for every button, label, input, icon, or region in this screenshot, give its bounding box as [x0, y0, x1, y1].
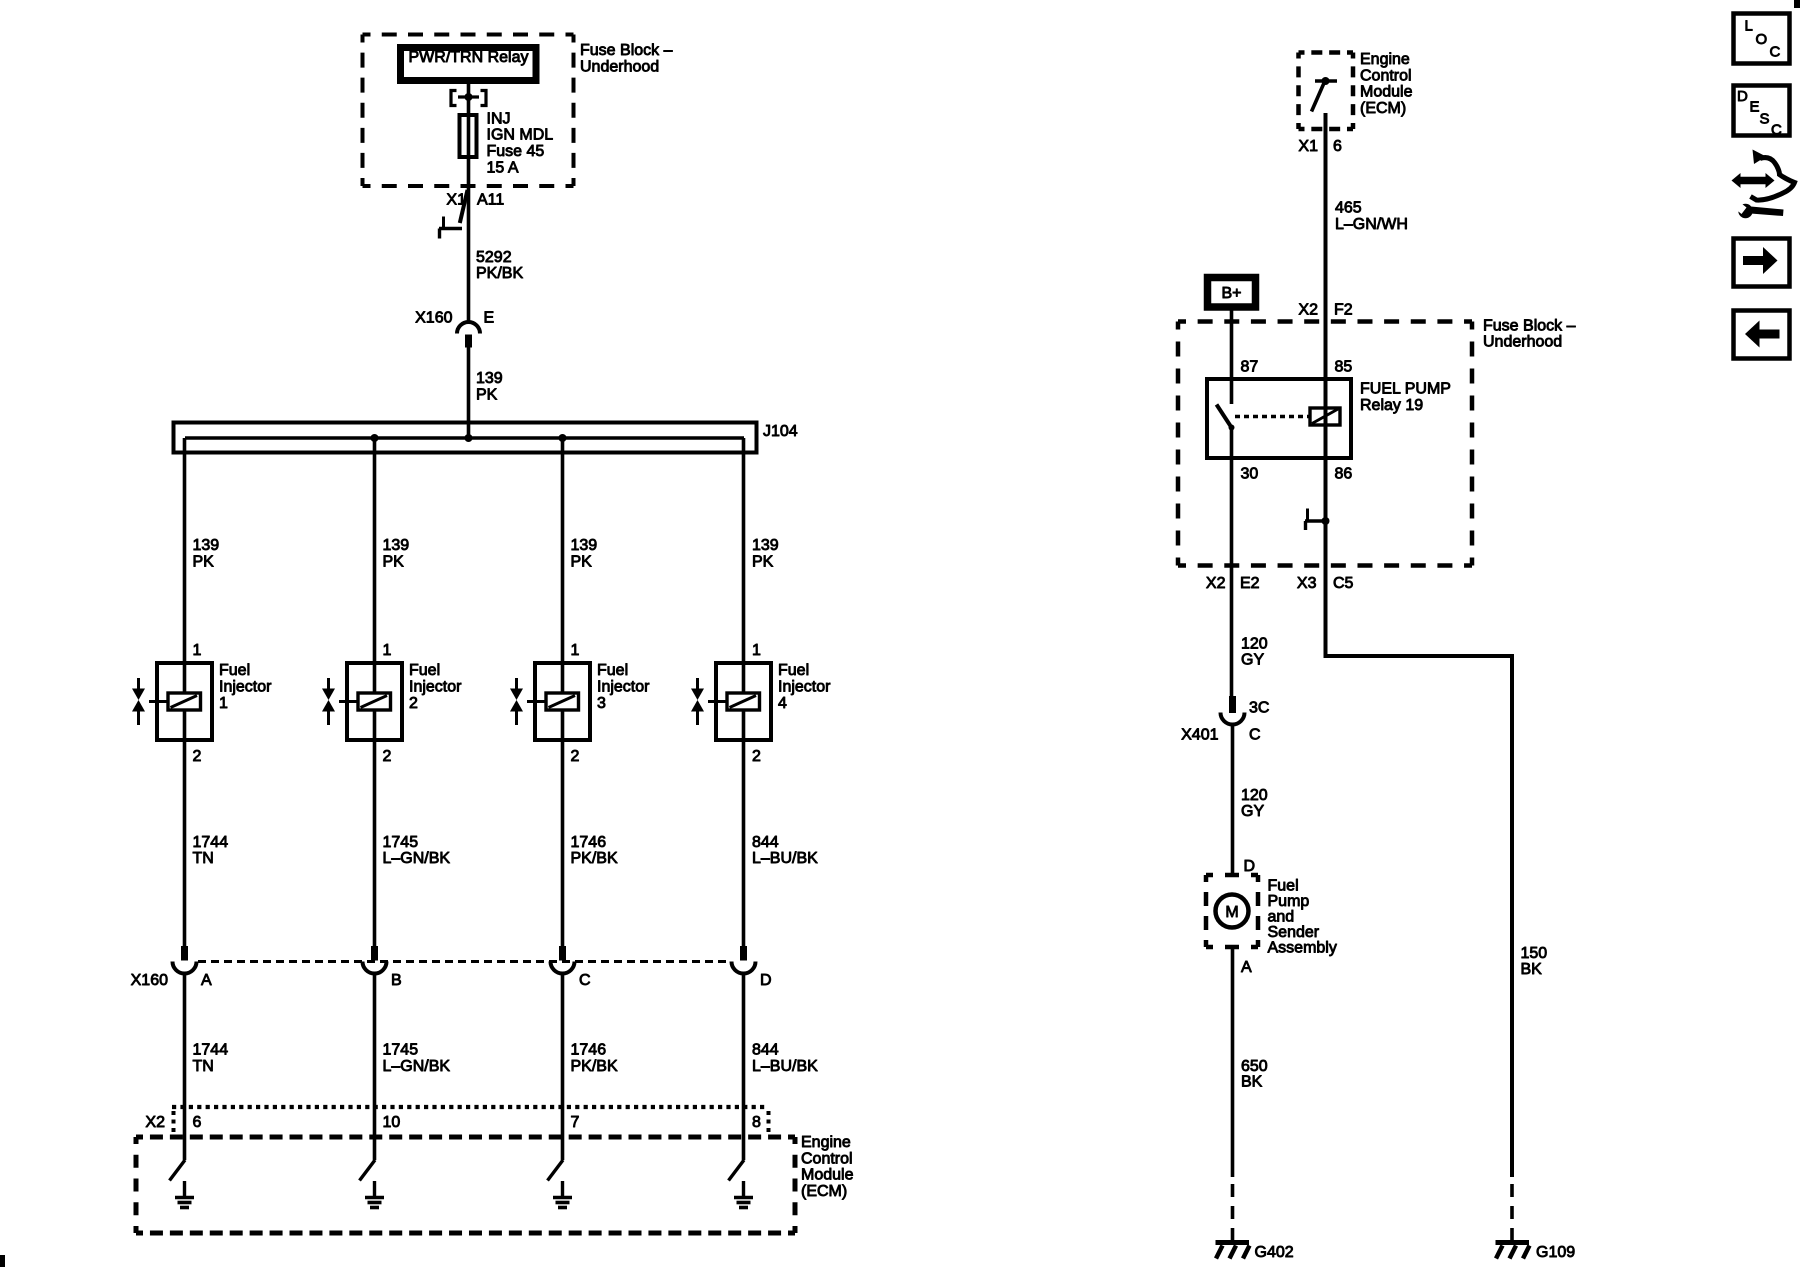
wire: relay output to fuse (net 5292 upper) — [467, 84, 471, 192]
svg-text:G109: G109 — [1536, 1244, 1575, 1261]
fuel injector 2 — [339, 662, 462, 740]
svg-text:Module: Module — [801, 1167, 854, 1184]
splice pack J104 — [174, 423, 798, 453]
wire B+ to relay pin 87 — [1230, 311, 1234, 405]
svg-text:6: 6 — [1333, 138, 1342, 155]
ECM fuel pump driver switch — [1312, 77, 1338, 112]
relay socket terminal clips — [451, 91, 486, 106]
svg-text:Underhood: Underhood — [580, 59, 659, 76]
svg-text:PK: PK — [476, 387, 498, 404]
svg-text:S: S — [1760, 111, 1770, 128]
svg-text:PWR/TRN Relay: PWR/TRN Relay — [408, 49, 528, 66]
wire 1744 TN lower — [185, 974, 229, 1161]
svg-text:30: 30 — [1241, 466, 1259, 483]
svg-text:Pump: Pump — [1268, 893, 1310, 910]
svg-text:Injector: Injector — [597, 679, 650, 696]
wire 844 L-BU/BK lower — [744, 974, 819, 1161]
svg-text:GY: GY — [1241, 803, 1264, 820]
svg-text:X2: X2 — [1298, 302, 1318, 319]
svg-text:FUEL PUMP: FUEL PUMP — [1360, 381, 1451, 398]
svg-text:15 A: 15 A — [487, 160, 519, 177]
svg-text:Injector: Injector — [409, 679, 462, 696]
svg-text:Fuel: Fuel — [1268, 878, 1299, 895]
svg-text:Fuel: Fuel — [219, 662, 250, 679]
connector row X2 dotted line — [145, 1107, 768, 1132]
svg-text:10: 10 — [383, 1114, 401, 1131]
connector X160 pin D — [732, 946, 772, 989]
fuel injector 3 — [527, 662, 650, 740]
wire 1745 L-GN/BK lower — [375, 974, 451, 1161]
connector X160 pin C — [551, 946, 591, 989]
battery feed B+ — [1208, 278, 1256, 308]
wire 120 GY lower — [1233, 725, 1268, 876]
injector 4 valve symbol — [691, 678, 704, 725]
svg-text:D: D — [1737, 88, 1748, 105]
svg-text:B+: B+ — [1221, 285, 1241, 302]
connector X160 pin E — [415, 310, 494, 348]
svg-text:Underhood: Underhood — [1483, 334, 1562, 351]
svg-text:85: 85 — [1335, 359, 1353, 376]
ECM driver switch 3 — [548, 1160, 564, 1181]
terminal hook on wire 86 — [1305, 509, 1330, 531]
pin labels X2 F2 — [1298, 302, 1352, 319]
svg-text:Fuse Block –: Fuse Block – — [1483, 318, 1576, 335]
pin labels X1 6 — [1298, 138, 1342, 155]
svg-text:D: D — [760, 972, 772, 989]
wire 1744 TN upper — [185, 710, 229, 946]
fuel injector 1 — [149, 662, 272, 740]
junction dot J104 left — [371, 434, 379, 442]
svg-text:86: 86 — [1335, 466, 1353, 483]
svg-text:2: 2 — [571, 748, 580, 765]
svg-text:Module: Module — [1360, 84, 1413, 101]
svg-text:IGN MDL: IGN MDL — [487, 127, 554, 144]
wire 1746 PK/BK upper — [563, 710, 618, 946]
svg-text:2: 2 — [752, 748, 761, 765]
svg-text:and: and — [1268, 909, 1295, 926]
ground G109 — [1496, 1243, 1576, 1262]
svg-text:X1: X1 — [1298, 138, 1318, 155]
wire 150 BK run to G109 — [1326, 654, 1548, 1177]
svg-text:(ECM): (ECM) — [801, 1183, 847, 1200]
pin labels 30 86 — [1241, 466, 1353, 483]
ground lead G402 dashed — [1231, 1184, 1235, 1240]
relay coil — [1310, 408, 1340, 425]
connector X1 pin A11 terminal — [439, 190, 504, 239]
svg-text:L: L — [1745, 18, 1753, 35]
pin labels X2 E2 — [1206, 575, 1260, 592]
svg-text:Control: Control — [1360, 67, 1412, 84]
ECM driver switch 2 — [360, 1160, 376, 1181]
svg-text:1: 1 — [752, 642, 761, 659]
svg-text:INJ: INJ — [487, 111, 511, 128]
svg-text:X160: X160 — [131, 972, 168, 989]
svg-text:465: 465 — [1335, 200, 1362, 217]
ground (ECM internal) 1 — [175, 1181, 194, 1208]
svg-text:C: C — [579, 972, 591, 989]
pin labels 87 85 — [1241, 359, 1353, 376]
svg-text:1: 1 — [571, 642, 580, 659]
svg-text:1745: 1745 — [383, 834, 419, 851]
icon next arrow button — [1734, 239, 1790, 287]
artifact mark bottom left — [0, 1255, 5, 1267]
svg-text:Sender: Sender — [1268, 924, 1320, 941]
svg-text:6: 6 — [193, 1114, 202, 1131]
svg-text:M: M — [1225, 904, 1238, 921]
svg-text:D: D — [1244, 858, 1256, 875]
svg-text:87: 87 — [1241, 359, 1259, 376]
injector 1 valve symbol — [132, 678, 145, 725]
icon back arrow button — [1734, 311, 1790, 359]
svg-text:A11: A11 — [477, 192, 504, 209]
svg-text:7: 7 — [571, 1114, 580, 1131]
fuel pump motor M — [1216, 895, 1249, 928]
connector X160 pin B — [363, 946, 402, 989]
svg-text:PK/BK: PK/BK — [571, 850, 618, 867]
wire 139 PK column 2 — [375, 438, 410, 693]
svg-text:B: B — [391, 972, 402, 989]
svg-text:Fuel: Fuel — [778, 662, 809, 679]
svg-text:G402: G402 — [1255, 1244, 1294, 1261]
svg-text:1: 1 — [383, 642, 392, 659]
svg-text:C: C — [1771, 122, 1782, 139]
svg-text:1745: 1745 — [383, 1042, 419, 1059]
svg-text:X3: X3 — [1297, 575, 1317, 592]
svg-text:Injector: Injector — [778, 679, 831, 696]
ECM driver switch 1 — [170, 1160, 186, 1181]
svg-text:C5: C5 — [1333, 575, 1354, 592]
ground G402 — [1216, 1243, 1294, 1262]
svg-text:150: 150 — [1521, 945, 1548, 962]
svg-text:3C: 3C — [1249, 700, 1269, 717]
svg-text:L–BU/BK: L–BU/BK — [752, 1058, 818, 1075]
injector 2 valve symbol — [322, 678, 335, 725]
svg-text:4: 4 — [778, 695, 787, 712]
wire 1745 L-GN/BK upper — [375, 710, 451, 946]
svg-text:BK: BK — [1241, 1074, 1263, 1091]
relay FUEL PUMP Relay 19 — [1207, 379, 1451, 458]
wire 139 PK column 1 — [185, 438, 220, 693]
svg-text:Engine: Engine — [1360, 51, 1410, 68]
svg-text:X2: X2 — [1206, 575, 1226, 592]
connector X160 pin A — [173, 946, 213, 989]
svg-text:A: A — [1241, 959, 1252, 976]
wire 139 PK (feed to J104) — [469, 348, 503, 439]
icon LOC button — [1734, 14, 1790, 64]
relay linkage dashed — [1235, 415, 1309, 418]
svg-text:(ECM): (ECM) — [1360, 100, 1406, 117]
svg-text:120: 120 — [1241, 636, 1268, 653]
svg-text:C: C — [1770, 44, 1781, 61]
fuse block underhood (right) dashed box — [1178, 318, 1576, 566]
svg-text:BK: BK — [1521, 961, 1543, 978]
connector X401 pin C — [1181, 696, 1269, 744]
svg-text:TN: TN — [193, 1058, 214, 1075]
svg-text:139: 139 — [476, 370, 503, 387]
icon schematic navigation (arrows and wrench) — [1732, 150, 1795, 219]
svg-text:PK: PK — [571, 554, 593, 571]
svg-text:J104: J104 — [763, 423, 798, 440]
pin labels X3 C5 — [1297, 575, 1354, 592]
svg-text:Fuel: Fuel — [409, 662, 440, 679]
svg-text:844: 844 — [752, 1042, 779, 1059]
ground (ECM internal) 4 — [734, 1181, 753, 1208]
svg-text:L–GN/WH: L–GN/WH — [1335, 216, 1408, 233]
junction dot at relay output — [465, 93, 473, 101]
svg-text:PK: PK — [383, 554, 405, 571]
junction dot J104 right — [559, 434, 567, 442]
svg-text:PK/BK: PK/BK — [571, 1058, 618, 1075]
svg-text:Fuse 45: Fuse 45 — [487, 143, 545, 160]
svg-text:Fuse Block –: Fuse Block – — [580, 42, 673, 59]
svg-text:X160: X160 — [415, 310, 452, 327]
ground (ECM internal) 2 — [365, 1181, 384, 1208]
artifact mark top right — [1794, 0, 1800, 8]
wire 139 PK column 3 — [563, 438, 598, 693]
ground (ECM internal) 3 — [553, 1181, 572, 1208]
svg-text:TN: TN — [193, 850, 214, 867]
svg-text:2: 2 — [383, 748, 392, 765]
svg-text:E: E — [1750, 99, 1760, 116]
wire relay pin 30 to X401 — [1230, 428, 1234, 697]
svg-text:X1: X1 — [446, 192, 466, 209]
ECM (top right) dashed box — [1299, 51, 1413, 129]
svg-text:1: 1 — [219, 695, 228, 712]
junction dot J104 center — [465, 434, 473, 442]
svg-text:1746: 1746 — [571, 1042, 607, 1059]
svg-text:X401: X401 — [1181, 727, 1218, 744]
svg-text:X2: X2 — [145, 1114, 165, 1131]
svg-text:L–GN/BK: L–GN/BK — [383, 1058, 451, 1075]
ground lead G109 dashed — [1510, 1184, 1514, 1240]
svg-text:844: 844 — [752, 834, 779, 851]
svg-text:PK: PK — [752, 554, 774, 571]
svg-text:1744: 1744 — [193, 834, 229, 851]
svg-text:C: C — [1249, 727, 1261, 744]
ECM left dashed box — [136, 1134, 854, 1233]
svg-text:E2: E2 — [1240, 575, 1260, 592]
fuel pump and sender assembly dashed box — [1206, 875, 1337, 957]
wire 120 GY upper — [1241, 636, 1268, 669]
wire 650 BK — [1233, 947, 1268, 1177]
icon DESC button — [1734, 86, 1790, 139]
fuse INJ IGN MDL Fuse 45 15 A — [460, 111, 554, 177]
svg-text:Fuel: Fuel — [597, 662, 628, 679]
svg-text:1: 1 — [193, 642, 202, 659]
svg-text:L–BU/BK: L–BU/BK — [752, 850, 818, 867]
relay PWR/TRN Relay — [401, 48, 537, 81]
svg-text:GY: GY — [1241, 652, 1264, 669]
svg-text:139: 139 — [571, 537, 598, 554]
svg-text:A: A — [201, 972, 212, 989]
svg-text:3: 3 — [597, 695, 606, 712]
svg-text:120: 120 — [1241, 787, 1268, 804]
wire 844 L-BU/BK upper — [744, 710, 819, 946]
svg-text:5292: 5292 — [476, 249, 512, 266]
svg-text:2: 2 — [193, 748, 202, 765]
svg-text:2: 2 — [409, 695, 418, 712]
injector 3 valve symbol — [510, 678, 523, 725]
svg-text:1746: 1746 — [571, 834, 607, 851]
svg-text:L–GN/BK: L–GN/BK — [383, 850, 451, 867]
svg-text:139: 139 — [193, 537, 220, 554]
wire 5292 PK/BK — [469, 192, 524, 322]
svg-text:Assembly: Assembly — [1268, 940, 1337, 957]
svg-text:139: 139 — [752, 537, 779, 554]
svg-text:1744: 1744 — [193, 1042, 229, 1059]
fuel injector 4 — [708, 662, 831, 740]
svg-text:PK: PK — [193, 554, 215, 571]
svg-text:E: E — [484, 310, 495, 327]
svg-text:Control: Control — [801, 1150, 853, 1167]
relay switch blade — [1217, 405, 1235, 431]
ECM driver switch 4 — [729, 1160, 745, 1181]
connector row X160 dashed link line — [198, 960, 731, 963]
svg-text:Injector: Injector — [219, 679, 272, 696]
wire 465 L-GN/WH — [1326, 113, 1408, 656]
svg-text:8: 8 — [752, 1114, 761, 1131]
wire 139 PK column 4 — [744, 438, 779, 693]
svg-text:F2: F2 — [1334, 302, 1353, 319]
svg-text:O: O — [1756, 31, 1768, 48]
svg-text:PK/BK: PK/BK — [476, 265, 523, 282]
wire 1746 PK/BK lower — [563, 974, 618, 1161]
svg-text:Relay 19: Relay 19 — [1360, 397, 1423, 414]
svg-text:650: 650 — [1241, 1058, 1268, 1075]
fuse block underhood (left) dashed box — [363, 35, 673, 187]
svg-text:Engine: Engine — [801, 1134, 851, 1151]
svg-text:139: 139 — [383, 537, 410, 554]
